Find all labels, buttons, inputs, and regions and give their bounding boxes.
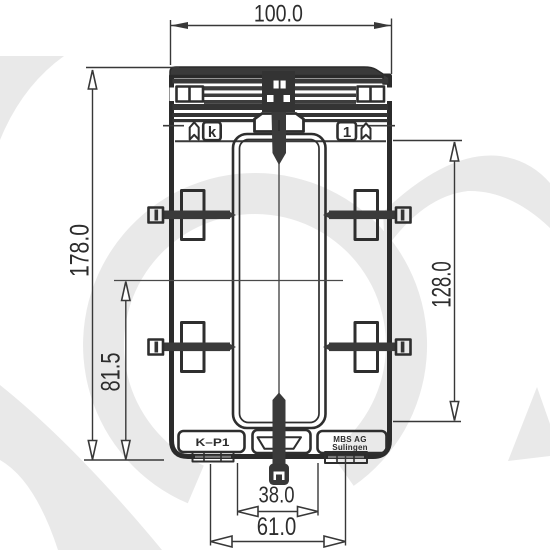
- clamp upper-right: [323, 191, 411, 240]
- arrowheads: [88, 22, 458, 547]
- ext line 100 left: [170, 20, 172, 65]
- device: [114, 67, 411, 485]
- cap top bar: [170, 67, 389, 84]
- inner window outer: [233, 134, 326, 428]
- ext line 128 bottom: [393, 421, 461, 423]
- ext line 38 right: [317, 463, 319, 516]
- arrow 128 down: [450, 402, 458, 421]
- label k: [203, 122, 221, 141]
- platform line: [175, 140, 386, 142]
- label box center: [253, 430, 311, 453]
- bottom screw: [269, 393, 289, 486]
- dim 61.0 line: [211, 541, 346, 543]
- arrow 38 left: [238, 507, 259, 517]
- inner window inner: [240, 140, 320, 423]
- svg-text:1: 1: [343, 124, 351, 141]
- arrow 81 up: [122, 282, 130, 301]
- ext line 128 top: [393, 140, 462, 142]
- arrow 61 right: [324, 536, 346, 547]
- arrow symbol left: [190, 122, 199, 139]
- dimensions: [84, 19, 462, 546]
- dim 100.0 line: [171, 25, 392, 27]
- dim 38.0 line: [238, 511, 319, 513]
- watermark top-left wedge: [0, 56, 64, 140]
- cap lower dark band: [173, 104, 389, 110]
- ext line 100 right: [391, 19, 393, 75]
- clamp lower-right: [323, 323, 411, 372]
- svg-text:38.0: 38.0: [259, 482, 295, 508]
- cap terminal block left: [177, 87, 204, 102]
- top screw shaft: [272, 112, 287, 165]
- svg-text:81.5: 81.5: [96, 353, 126, 392]
- terminal strip right: [325, 452, 367, 463]
- svg-text:100.0: 100.0: [254, 0, 303, 27]
- label box K-P1: [179, 431, 245, 452]
- svg-text:k: k: [208, 124, 217, 141]
- clamp lower-left: [149, 323, 237, 372]
- watermark top-right swoosh: [383, 155, 550, 250]
- svg-text:K–P1: K–P1: [196, 437, 230, 449]
- label l: [338, 122, 357, 141]
- svg-text:Sulingen: Sulingen: [332, 443, 367, 452]
- svg-text:178.0: 178.0: [65, 224, 95, 277]
- watermark bottom-left band: [0, 385, 162, 550]
- cap stripe band: [173, 79, 389, 84]
- dimension texts: [65, 0, 457, 541]
- watermark ring: [83, 173, 427, 503]
- wall notch right: [387, 88, 393, 102]
- body step ticks: [163, 125, 184, 127]
- window vertical centerline: [278, 143, 280, 420]
- cap mid stripes: [204, 86, 356, 104]
- arrow 81 down: [122, 441, 130, 460]
- center screw housing: [262, 71, 295, 112]
- label box right: [318, 431, 387, 453]
- terminal strip left: [193, 452, 234, 462]
- arrow 61 left: [211, 536, 233, 547]
- svg-text:128.0: 128.0: [427, 261, 457, 308]
- watermark bottom-right wedge: [508, 387, 550, 461]
- dim 178.0 line: [92, 70, 94, 460]
- cap terminal block right: [358, 87, 385, 102]
- dim 128.0 line: [454, 142, 456, 421]
- ext line 178 top: [86, 67, 179, 69]
- arrow 178 down: [88, 441, 96, 460]
- arrow 178 up: [88, 70, 96, 89]
- ext line 61 right: [345, 455, 347, 546]
- ext line 61 left: [210, 464, 212, 546]
- arrow 128 up: [450, 142, 458, 161]
- wall notch left: [170, 88, 176, 102]
- ext line bottom baseline: [84, 459, 164, 461]
- cap bottom edge: [173, 113, 389, 117]
- arrow 100 right: [374, 22, 392, 29]
- horizontal centerline: [114, 280, 343, 282]
- top wing nut: [255, 114, 304, 132]
- arrow 100 left: [171, 22, 189, 29]
- arrow symbol right: [362, 123, 371, 139]
- body outline: [172, 76, 390, 457]
- dim 81.5 line: [125, 282, 127, 460]
- clamp upper-left: [149, 191, 237, 240]
- ext line 38 left: [237, 463, 239, 516]
- arrow 38 right: [298, 507, 319, 517]
- svg-text:61.0: 61.0: [257, 513, 297, 541]
